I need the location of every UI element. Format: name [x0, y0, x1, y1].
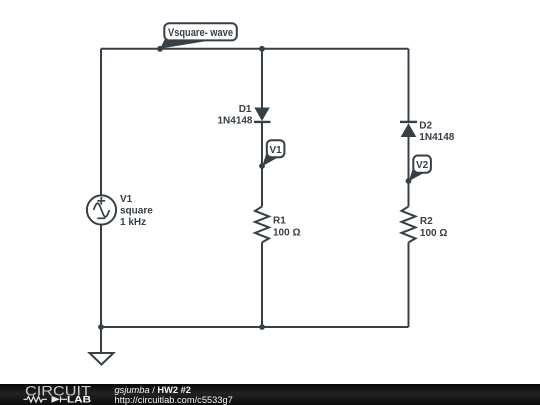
svg-text:1N4148: 1N4148: [217, 115, 252, 126]
svg-text:1 kHz: 1 kHz: [120, 217, 146, 228]
wire left vertical upper: [100, 49, 102, 195]
svg-text:V1: V1: [269, 145, 282, 156]
resistor R2: [402, 207, 416, 243]
junction dot ground net left: [98, 324, 104, 330]
svg-text:http://circuitlab.com/c5533g7: http://circuitlab.com/c5533g7: [115, 395, 233, 405]
svg-text:D2: D2: [419, 120, 432, 131]
svg-text:LAB: LAB: [67, 395, 92, 405]
diode D2: [400, 122, 417, 137]
svg-text:R2: R2: [420, 216, 433, 227]
footer bar: [0, 384, 540, 405]
wire left vertical lower: [100, 225, 102, 353]
voltage source V1: [87, 195, 116, 224]
logo symbol (resistor + diode): [24, 396, 68, 402]
svg-text:100 Ω: 100 Ω: [273, 227, 300, 238]
junction dot node Vsquare-wave tail: [157, 46, 163, 52]
junction dot ground net middle: [259, 324, 265, 330]
svg-text:R1: R1: [273, 216, 286, 227]
svg-text:100 Ω: 100 Ω: [420, 228, 447, 239]
ground: [90, 327, 114, 365]
svg-text:square: square: [120, 206, 153, 217]
wire top horizontal net Vsquare-wave: [101, 48, 409, 50]
svg-text:1N4148: 1N4148: [419, 132, 454, 143]
wire bottom horizontal ground net: [101, 326, 409, 328]
label D1 (D1 / 1N4148): [217, 104, 252, 127]
junction dot node V2 tail: [406, 178, 412, 184]
wire right vertical upper (to D2): [408, 49, 410, 122]
wire middle vertical lower (R1 to bottom): [261, 242, 263, 327]
svg-text:V1: V1: [120, 194, 133, 205]
svg-text:D1: D1: [239, 104, 252, 115]
wire middle vertical upper (to D1): [261, 49, 263, 108]
label R2 (R2 / 100 Ω): [420, 216, 447, 239]
wire middle vertical mid (D1 to R1, node V1): [261, 122, 263, 207]
resistor R1: [255, 207, 269, 243]
diode D1: [254, 108, 271, 122]
wire right vertical lower (R2 to bottom): [408, 242, 410, 327]
svg-text:gsjumba / HW2 #2: gsjumba / HW2 #2: [115, 385, 191, 395]
svg-text:Vsquare- wave: Vsquare- wave: [168, 27, 233, 39]
svg-text:V2: V2: [416, 160, 429, 171]
label V1 value (V1 / square / 1 kHz): [120, 194, 153, 228]
wire right vertical mid (D2 to R2, node V2): [408, 137, 410, 207]
junction dot node V1 tail: [259, 163, 265, 169]
junction dot middle branch top: [259, 46, 265, 52]
label R1 (R1 / 100 Ω): [273, 216, 300, 239]
node flag V1: [262, 140, 284, 166]
label D2 (D2 / 1N4148): [419, 120, 454, 142]
node flag Vsquare-wave: [160, 23, 237, 48]
node flag V2: [409, 156, 431, 182]
